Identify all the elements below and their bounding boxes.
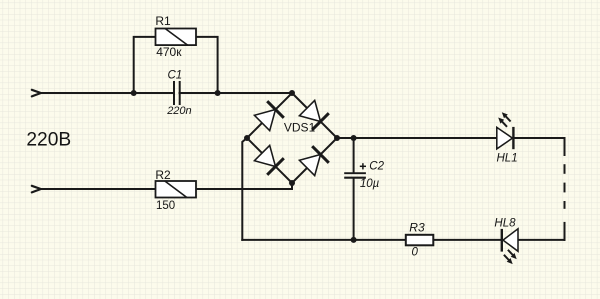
wire bottom rail left of R3 xyxy=(242,239,405,241)
resistor R3 xyxy=(406,221,434,259)
diode D-bottomright of bridge xyxy=(299,146,328,175)
wire R1 branch right vertical xyxy=(196,37,218,93)
diode D-topleft of bridge xyxy=(254,101,283,130)
wire top input line right of C1 to bridge top xyxy=(180,92,293,94)
wire right vertical dashed segment 3 xyxy=(564,202,566,208)
input terminal arrow bottom xyxy=(32,186,41,193)
wire right vertical dashed segment 2 xyxy=(564,184,566,192)
diode D-bottomleft of bridge xyxy=(254,145,283,174)
wire top rail bridge to HL1 and corner xyxy=(337,137,565,139)
svg-text:R1: R1 xyxy=(155,14,171,28)
node bridge left xyxy=(244,135,250,141)
node bridge top xyxy=(289,90,295,96)
wire bottom input line to R2 xyxy=(41,188,156,190)
wire right vertical solid bottom xyxy=(564,223,566,240)
svg-text:220В: 220В xyxy=(26,130,71,151)
node C2 bottom junction xyxy=(351,237,357,243)
svg-text:10µ: 10µ xyxy=(360,178,380,190)
LED HL8 xyxy=(494,218,518,265)
svg-text:HL1: HL1 xyxy=(497,153,518,165)
svg-text:220n: 220n xyxy=(166,105,191,117)
wire bottom rail R3 to HL8 xyxy=(433,239,502,241)
svg-text:470к: 470к xyxy=(156,45,182,59)
svg-text:C2: C2 xyxy=(369,160,384,172)
wire R1 branch left vertical xyxy=(134,37,156,93)
input terminal arrow top xyxy=(32,90,41,97)
wire C2 lower lead xyxy=(353,178,355,240)
svg-text:150: 150 xyxy=(156,200,175,212)
wire C2 upper lead xyxy=(353,138,355,173)
node junction dot C1 right xyxy=(215,90,221,96)
wire R2 to bridge bottom xyxy=(196,183,292,189)
svg-text:C1: C1 xyxy=(168,70,183,82)
svg-text:HL8: HL8 xyxy=(494,218,516,230)
wire bridge left corner to bottom rail xyxy=(242,138,247,240)
wire right vertical dashed segment 1 xyxy=(564,165,566,173)
resistor R1 xyxy=(155,14,196,59)
capacitor C2 polarized xyxy=(344,160,384,190)
diode D-topright of bridge xyxy=(299,100,328,129)
wire top input line left of C1 xyxy=(41,92,174,94)
resistor R2 xyxy=(155,168,196,212)
node C2 top junction xyxy=(351,135,357,141)
svg-text:R3: R3 xyxy=(409,221,425,235)
LED HL1 xyxy=(497,112,518,165)
node bridge right xyxy=(334,135,340,141)
svg-text:VDS1: VDS1 xyxy=(284,121,316,135)
bridge rectifier VDS1 diamond xyxy=(247,93,337,183)
node junction dot C1 left xyxy=(131,90,137,96)
capacitor C1 xyxy=(166,70,191,117)
wire right vertical solid top xyxy=(564,138,566,155)
svg-text:0: 0 xyxy=(412,247,419,259)
node bridge bottom xyxy=(289,180,295,186)
svg-text:R2: R2 xyxy=(155,168,171,182)
wire HL8 to right corner xyxy=(518,239,565,241)
